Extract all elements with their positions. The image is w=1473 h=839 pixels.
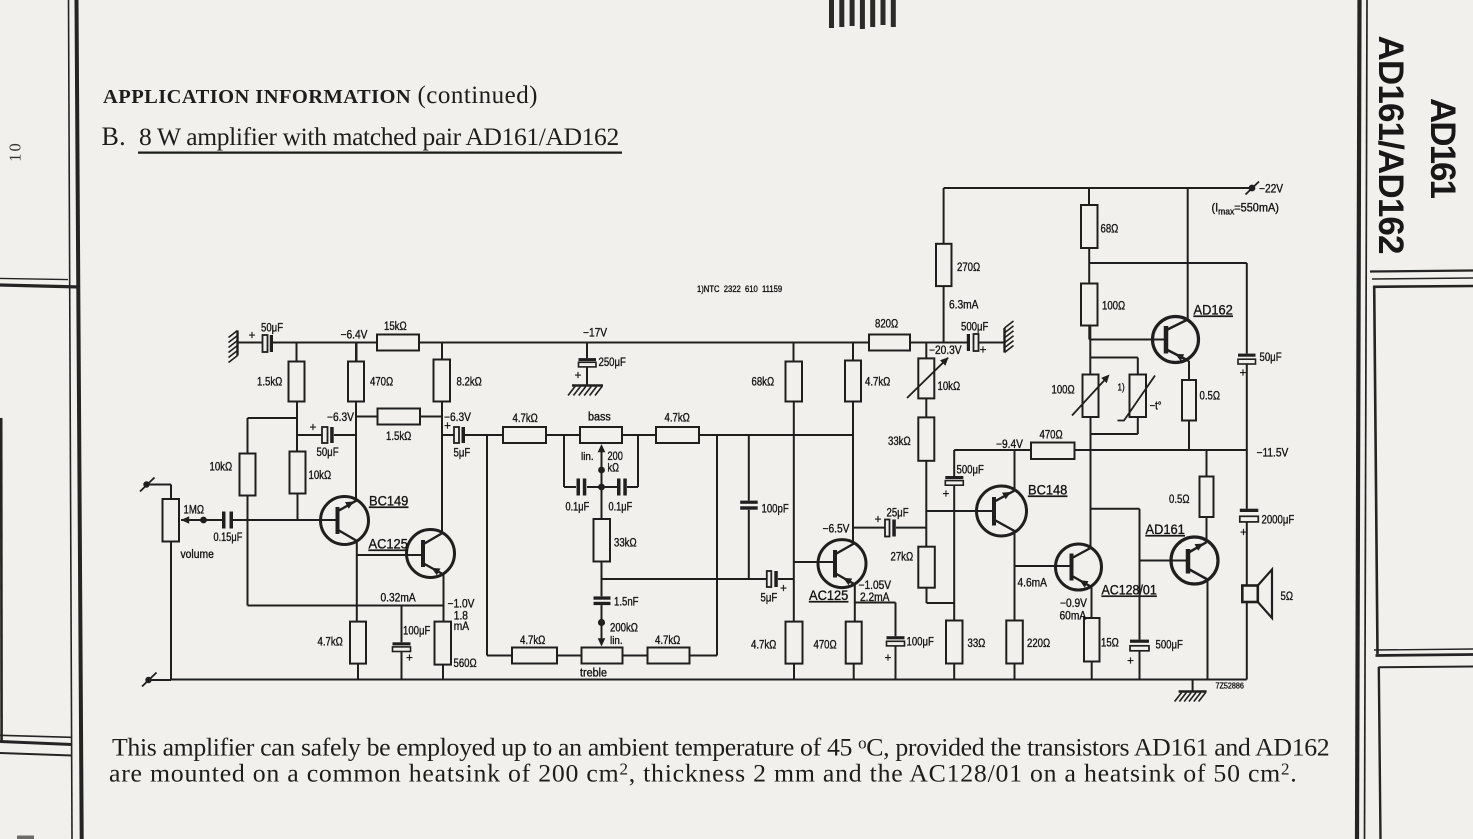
svg-text:AD162: AD162	[1194, 302, 1233, 318]
svg-text:10: 10	[6, 141, 25, 162]
svg-text:treble: treble	[580, 667, 607, 680]
svg-text:+: +	[310, 422, 317, 434]
svg-text:1.5kΩ: 1.5kΩ	[386, 430, 411, 443]
svg-text:+: +	[780, 583, 787, 595]
svg-text:4.6mA: 4.6mA	[1018, 577, 1048, 590]
svg-text:7Z52886: 7Z52886	[1216, 681, 1244, 690]
svg-text:560Ω: 560Ω	[454, 657, 477, 670]
svg-text:are mounted on a common heatsi: are mounted on a common heatsink of 200 …	[109, 759, 1297, 788]
svg-text:250μF: 250μF	[599, 356, 627, 369]
svg-text:AD161: AD161	[1146, 522, 1185, 538]
svg-text:8 W amplifier with matched pai: 8 W amplifier with matched pair AD161/AD…	[139, 122, 620, 151]
svg-text:100pF: 100pF	[762, 503, 790, 516]
svg-text:33kΩ: 33kΩ	[614, 537, 637, 550]
svg-text:0.5Ω: 0.5Ω	[1200, 390, 1221, 403]
svg-text:0.1μF: 0.1μF	[609, 502, 633, 514]
svg-text:+: +	[1240, 368, 1247, 380]
svg-text:5μF: 5μF	[761, 592, 778, 605]
svg-text:+: +	[575, 370, 582, 382]
svg-text:1.5kΩ: 1.5kΩ	[257, 376, 282, 389]
svg-text:5μF: 5μF	[454, 447, 471, 460]
svg-text:8.2kΩ: 8.2kΩ	[457, 376, 482, 389]
svg-text:lin.: lin.	[581, 452, 594, 464]
svg-text:0.15μF: 0.15μF	[214, 532, 243, 544]
svg-text:−17V: −17V	[583, 327, 608, 340]
svg-text:10kΩ: 10kΩ	[938, 380, 961, 393]
svg-text:500μF: 500μF	[957, 464, 985, 477]
svg-text:470Ω: 470Ω	[370, 376, 393, 389]
svg-text:15kΩ: 15kΩ	[384, 320, 407, 333]
svg-text:1): 1)	[1118, 382, 1125, 393]
svg-text:+: +	[444, 421, 451, 433]
svg-text:This amplifier can safely be e: This amplifier can safely be employed up…	[112, 733, 1330, 762]
svg-text:470Ω: 470Ω	[1040, 429, 1063, 442]
svg-text:500μF: 500μF	[1156, 639, 1184, 652]
svg-text:B.: B.	[102, 122, 126, 151]
svg-text:68kΩ: 68kΩ	[752, 376, 775, 389]
svg-text:+: +	[249, 330, 256, 342]
svg-text:(Imax=550mA): (Imax=550mA)	[1212, 202, 1280, 216]
svg-text:33kΩ: 33kΩ	[888, 435, 911, 448]
svg-text:2000μF: 2000μF	[1262, 514, 1295, 527]
svg-text:−9.4V: −9.4V	[996, 438, 1023, 451]
svg-text:+: +	[943, 489, 950, 501]
svg-text:68Ω: 68Ω	[1101, 223, 1119, 236]
svg-text:15Ω: 15Ω	[1101, 637, 1119, 650]
svg-text:+: +	[875, 514, 882, 526]
svg-text:APPLICATION INFORMATION: APPLICATION INFORMATION	[103, 86, 411, 108]
svg-text:4.7kΩ: 4.7kΩ	[318, 636, 343, 649]
svg-text:−1.0V: −1.0V	[448, 598, 475, 611]
svg-text:AD161: AD161	[1423, 98, 1462, 199]
svg-text:volume: volume	[181, 549, 214, 562]
svg-text:4.7kΩ: 4.7kΩ	[865, 376, 890, 389]
svg-text:33Ω: 33Ω	[968, 637, 986, 650]
svg-text:60mA: 60mA	[1060, 610, 1087, 623]
svg-text:100Ω: 100Ω	[1102, 300, 1125, 313]
svg-text:bass: bass	[588, 411, 611, 424]
svg-text:4.7kΩ: 4.7kΩ	[751, 639, 776, 652]
svg-text:270Ω: 270Ω	[957, 261, 980, 274]
svg-text:−t°: −t°	[1150, 400, 1162, 413]
svg-text:+: +	[980, 345, 987, 357]
svg-text:0.5Ω: 0.5Ω	[1169, 493, 1190, 506]
svg-text:−20.3V: −20.3V	[929, 344, 962, 357]
svg-text:50μF: 50μF	[1260, 351, 1282, 364]
svg-text:10kΩ: 10kΩ	[309, 469, 332, 482]
svg-text:BC148: BC148	[1028, 482, 1067, 498]
svg-text:−11.5V: −11.5V	[1257, 447, 1289, 460]
svg-text:25μF: 25μF	[887, 507, 909, 520]
svg-text:200: 200	[608, 451, 624, 463]
svg-text:4.7kΩ: 4.7kΩ	[655, 634, 680, 647]
svg-text:820Ω: 820Ω	[875, 318, 898, 331]
svg-text:6.3mA: 6.3mA	[949, 299, 979, 312]
svg-text:50μF: 50μF	[317, 446, 339, 459]
svg-text:220Ω: 220Ω	[1027, 637, 1050, 650]
svg-text:+: +	[406, 653, 413, 665]
svg-text:(continued): (continued)	[418, 82, 538, 109]
svg-text:1MΩ: 1MΩ	[184, 504, 205, 517]
svg-text:4.7kΩ: 4.7kΩ	[513, 412, 538, 425]
svg-text:−6.4V: −6.4V	[341, 329, 368, 342]
svg-text:200kΩ: 200kΩ	[610, 622, 638, 635]
svg-text:4.7kΩ: 4.7kΩ	[665, 412, 690, 425]
svg-text:100μF: 100μF	[907, 636, 935, 649]
svg-text:lin.: lin.	[610, 636, 623, 648]
svg-text:1.5nF: 1.5nF	[614, 596, 639, 609]
svg-text:50μF: 50μF	[261, 322, 283, 335]
svg-text:470Ω: 470Ω	[814, 639, 837, 652]
svg-text:0.32mA: 0.32mA	[381, 592, 417, 605]
svg-text:0.1μF: 0.1μF	[566, 502, 590, 514]
svg-text:1)NTC 2322 610 11159: 1)NTC 2322 610 11159	[697, 283, 782, 294]
svg-text:−6.5V: −6.5V	[823, 523, 850, 536]
svg-text:+: +	[885, 653, 892, 665]
svg-text:AD161/AD162: AD161/AD162	[1371, 36, 1410, 255]
svg-text:100μF: 100μF	[403, 625, 431, 638]
svg-text:kΩ: kΩ	[608, 463, 620, 475]
svg-text:BC149: BC149	[369, 493, 408, 509]
svg-text:10kΩ: 10kΩ	[210, 461, 233, 474]
svg-text:5Ω: 5Ω	[1281, 590, 1294, 603]
svg-text:500μF: 500μF	[961, 321, 989, 334]
svg-text:AC125: AC125	[809, 588, 848, 604]
svg-text:AC128/01: AC128/01	[1102, 582, 1157, 598]
svg-text:−22V: −22V	[1259, 183, 1284, 196]
svg-text:−1.05V: −1.05V	[859, 579, 892, 592]
svg-text:100Ω: 100Ω	[1052, 384, 1075, 397]
svg-text:+: +	[1127, 656, 1134, 668]
svg-text:AC125: AC125	[369, 536, 408, 552]
svg-text:27kΩ: 27kΩ	[891, 551, 914, 564]
svg-text:−0.9V: −0.9V	[1060, 597, 1087, 610]
svg-text:−6.3V: −6.3V	[327, 411, 354, 424]
svg-text:4.7kΩ: 4.7kΩ	[520, 634, 545, 647]
svg-text:mA: mA	[454, 620, 470, 633]
